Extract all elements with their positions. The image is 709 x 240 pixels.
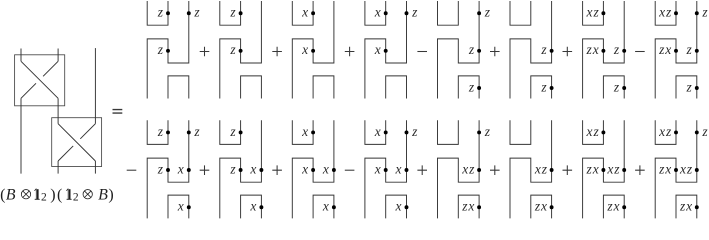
svg-text:z: z (613, 79, 620, 94)
svg-text:x: x (322, 161, 329, 176)
svg-text:x: x (301, 42, 308, 57)
svg-text:x: x (177, 199, 184, 214)
svg-text:z: z (411, 124, 418, 139)
svg-text:z: z (540, 79, 547, 94)
svg-text:zx: zx (586, 42, 600, 57)
svg-text:z: z (686, 79, 693, 94)
svg-text:xz: xz (586, 5, 600, 20)
svg-text:zx: zx (606, 199, 620, 214)
svg-text:zx: zx (461, 199, 475, 214)
svg-text:z: z (229, 5, 236, 20)
svg-text:xz: xz (586, 124, 600, 139)
svg-text:z: z (157, 124, 164, 139)
svg-text:xz: xz (658, 5, 672, 20)
svg-text:z: z (411, 5, 418, 20)
svg-text:zx: zx (586, 161, 600, 176)
svg-text:x: x (322, 199, 329, 214)
svg-text:z: z (193, 124, 200, 139)
svg-text:x: x (177, 161, 184, 176)
svg-text:x: x (374, 42, 381, 57)
svg-text:z: z (193, 5, 200, 20)
svg-text:xz: xz (461, 161, 475, 176)
svg-text:z: z (157, 5, 164, 20)
svg-text:x: x (395, 161, 402, 176)
svg-text:x: x (301, 161, 308, 176)
svg-text:x: x (249, 161, 256, 176)
svg-text:x: x (374, 124, 381, 139)
svg-text:x: x (395, 199, 402, 214)
svg-text:): ) (50, 186, 55, 203)
svg-text:2: 2 (73, 191, 79, 203)
svg-text:z: z (701, 124, 708, 139)
svg-text:z: z (229, 124, 236, 139)
svg-text:x: x (301, 124, 308, 139)
svg-text:z: z (229, 161, 236, 176)
svg-text:z: z (701, 5, 708, 20)
svg-text:B: B (98, 186, 108, 203)
svg-text:xz: xz (679, 161, 693, 176)
svg-text:B: B (6, 186, 16, 203)
svg-text:2: 2 (41, 191, 47, 203)
svg-text:z: z (229, 42, 236, 57)
svg-text:zx: zx (658, 161, 672, 176)
svg-text:xz: xz (658, 124, 672, 139)
svg-text:z: z (157, 42, 164, 57)
svg-text:x: x (301, 5, 308, 20)
svg-text:z: z (484, 5, 491, 20)
svg-text:zx: zx (679, 199, 693, 214)
svg-text:z: z (613, 42, 620, 57)
svg-text:x: x (374, 161, 381, 176)
svg-text:): ) (108, 186, 113, 203)
svg-text:x: x (249, 199, 256, 214)
svg-text:x: x (374, 5, 381, 20)
svg-text:xz: xz (606, 161, 620, 176)
svg-text:z: z (484, 124, 491, 139)
svg-text:zx: zx (534, 199, 548, 214)
svg-text:xz: xz (534, 161, 548, 176)
svg-text:z: z (157, 161, 164, 176)
svg-text:z: z (540, 42, 547, 57)
svg-text:(: ( (0, 186, 5, 203)
svg-text:(: ( (57, 186, 62, 203)
svg-text:z: z (468, 42, 475, 57)
svg-text:z: z (468, 79, 475, 94)
svg-text:z: z (686, 42, 693, 57)
svg-text:zx: zx (658, 42, 672, 57)
